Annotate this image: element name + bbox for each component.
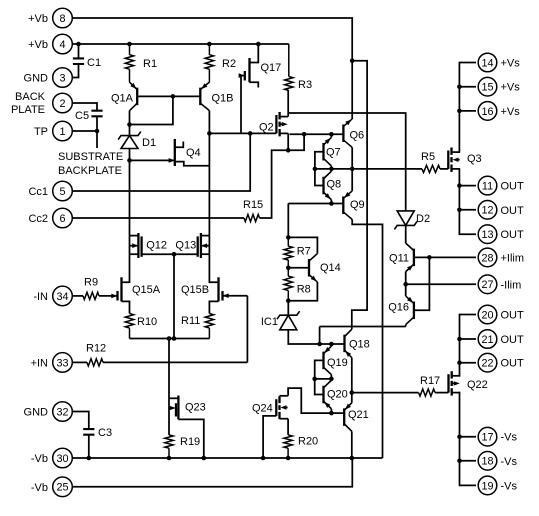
wire Q14 emitter	[288, 282, 317, 301]
node pin22 tap	[457, 360, 462, 365]
pin 17	[478, 427, 497, 446]
wire +Vb8 branch to Q18 column	[352, 61, 367, 330]
transistor Q16	[406, 296, 414, 325]
resistor R11	[205, 314, 213, 339]
wire R17 to Q22 gate	[435, 392, 449, 394]
pin 3	[53, 68, 73, 88]
svg-text:Q12: Q12	[146, 240, 167, 252]
resistor R12	[87, 359, 103, 366]
svg-text:R1: R1	[143, 58, 157, 70]
svg-text:33: 33	[56, 357, 68, 369]
wire pin15 stub	[459, 86, 476, 88]
svg-text:Q9: Q9	[350, 199, 365, 211]
wire Q19Q20 mid rail	[315, 378, 332, 380]
wire Q16 emitter up	[405, 284, 407, 296]
wire Q14 base	[288, 267, 309, 269]
label OUT pin 13	[501, 229, 525, 241]
svg-text:Q16: Q16	[388, 302, 409, 314]
label Q14	[320, 262, 341, 274]
node R8 bottom	[286, 298, 291, 303]
transistor Q21	[344, 403, 352, 432]
label OUT pin 21	[501, 334, 525, 346]
wire Q6 base line	[290, 133, 344, 135]
svg-text:+Vs: +Vs	[501, 82, 521, 94]
wire pin11 stub	[459, 185, 476, 187]
label C5	[75, 110, 89, 122]
svg-text:34: 34	[56, 291, 68, 303]
node tail mid	[172, 336, 177, 341]
node Q1B collector junction	[207, 131, 212, 136]
wire C1 to +Vb rail	[78, 44, 80, 58]
svg-text:-Vs: -Vs	[501, 480, 518, 492]
transistor Q1B	[200, 82, 209, 111]
wire pin18 stub	[460, 460, 477, 462]
node pin15 tap	[457, 84, 462, 89]
node Q19Q20 box mid	[312, 377, 317, 382]
svg-text:R19: R19	[180, 436, 200, 448]
label Q19	[327, 357, 348, 369]
node Q19 emitter tap	[329, 342, 334, 347]
label R11	[181, 315, 200, 327]
svg-text:Q22: Q22	[467, 379, 488, 391]
zener D2	[394, 211, 417, 230]
wire Q23 to R19	[168, 408, 170, 435]
resistor R7	[284, 237, 292, 267]
svg-text:R10: R10	[137, 316, 157, 328]
svg-text:Cc2: Cc2	[28, 213, 48, 225]
wire Q20 emitter rail to Q21 base	[331, 412, 344, 414]
svg-text:R11: R11	[181, 315, 200, 327]
svg-text:22: 22	[481, 358, 493, 370]
svg-text:Q1A: Q1A	[111, 93, 134, 105]
resistor R1	[125, 44, 133, 82]
wire Q23 source	[178, 419, 203, 458]
svg-text:1: 1	[59, 126, 65, 138]
svg-text:14: 14	[481, 57, 493, 69]
wire pin34 to R9	[72, 295, 83, 297]
pin 25	[53, 477, 73, 497]
label Q2	[259, 122, 274, 134]
svg-text:25: 25	[56, 482, 68, 494]
label -Vb pin 30	[31, 453, 48, 465]
pin 11	[478, 176, 497, 195]
node pin12 tap	[457, 208, 462, 213]
wire Q21 collector up	[351, 393, 353, 403]
svg-text:OUT: OUT	[501, 229, 525, 241]
wire Q2 drain to R3	[287, 91, 289, 117]
svg-text:Q17: Q17	[261, 62, 282, 74]
wire Q13 drain lead	[201, 235, 210, 237]
svg-text:28: 28	[481, 252, 493, 264]
svg-text:R2: R2	[222, 58, 236, 70]
svg-text:15: 15	[481, 82, 493, 94]
wire +Vb8 drop to Q6 emitter	[351, 61, 353, 119]
node Q6 base line left	[302, 132, 307, 137]
gate bar Q13	[197, 236, 199, 256]
wire Q7 collector	[330, 166, 332, 169]
svg-text:-Ilim: -Ilim	[501, 279, 522, 291]
svg-text:R15: R15	[243, 199, 263, 211]
wire Q1A collector	[129, 111, 131, 125]
transistor Q15B channel	[217, 277, 219, 301]
wire Q4 source	[175, 162, 210, 166]
node D1 bottom	[127, 158, 132, 163]
svg-text:19: 19	[481, 480, 493, 492]
svg-text:R8: R8	[297, 284, 311, 296]
svg-text:R17: R17	[420, 375, 440, 387]
pin 32	[53, 402, 73, 422]
pin 22	[478, 353, 497, 372]
wire Q20 emitter down	[330, 409, 332, 413]
wire base to collector link	[130, 96, 173, 124]
svg-text:Q23: Q23	[185, 402, 206, 414]
pin 4	[53, 34, 73, 54]
node Q7Q8 box mid	[313, 167, 318, 172]
svg-text:R7: R7	[297, 246, 311, 258]
wire Q3 drain up	[459, 63, 476, 153]
transistor Q13 channel	[200, 233, 202, 258]
pin 12	[478, 201, 497, 220]
label R17	[420, 375, 440, 387]
transistor Q20	[324, 380, 332, 409]
label Q16	[388, 302, 409, 314]
wire Q3 source down	[459, 169, 476, 234]
svg-text:16: 16	[481, 106, 493, 118]
svg-text:Q24: Q24	[252, 403, 273, 415]
label C1	[87, 57, 101, 69]
pin 20	[478, 305, 497, 324]
wire Q7 emitter up	[330, 134, 332, 137]
transistor Q3	[448, 148, 460, 172]
label -Vs pin 19	[501, 480, 518, 492]
label Q13	[175, 240, 196, 252]
pin 27	[478, 275, 497, 294]
wire clamp riser	[319, 327, 321, 345]
node -Ilim junction	[403, 282, 408, 287]
pin 18	[478, 452, 497, 471]
wire D1 bottom	[129, 149, 131, 161]
pin 15	[478, 77, 497, 96]
transistor Q9	[343, 191, 352, 220]
wire Q9 collector down	[352, 219, 382, 458]
transistor Q2	[276, 112, 288, 136]
label +Ilim pin 28	[501, 252, 525, 264]
node Q8 collector tap	[329, 167, 334, 172]
label R3	[298, 79, 312, 91]
wire pin22 stub	[460, 362, 477, 364]
wire Q7Q8 mid rail	[315, 168, 352, 170]
svg-text:Q15A: Q15A	[132, 284, 161, 296]
svg-text:IC1: IC1	[261, 316, 278, 328]
pin 14	[478, 53, 497, 72]
wire Q2 gate line	[209, 132, 276, 134]
wire Q4 drain stub	[175, 142, 184, 148]
svg-text:GND: GND	[24, 407, 49, 419]
wire Q1B collector	[208, 111, 210, 134]
svg-text:4: 4	[59, 39, 65, 51]
node Q20 emitter	[329, 411, 334, 416]
svg-text:18: 18	[481, 456, 493, 468]
wire Cc1	[72, 133, 250, 191]
label Q22	[467, 379, 488, 391]
node R20 bottom	[286, 456, 291, 461]
label Q1A	[111, 93, 134, 105]
node Q1A collector-D1	[127, 122, 132, 127]
wire Q9 emitter up	[351, 169, 353, 191]
transistor Q12 channel	[137, 233, 139, 258]
wire Q4 gate	[130, 158, 175, 163]
pin 33	[53, 353, 73, 373]
svg-text:OUT: OUT	[501, 205, 525, 217]
svg-text:Q18: Q18	[349, 339, 370, 351]
label R8	[297, 284, 311, 296]
svg-text:Q20: Q20	[327, 389, 348, 401]
node +Vb8 branch	[350, 58, 355, 63]
pin 13	[478, 225, 497, 244]
label R19	[180, 436, 200, 448]
label R15	[243, 199, 263, 211]
svg-text:20: 20	[481, 309, 493, 321]
svg-text:OUT: OUT	[501, 181, 525, 193]
pin 1	[53, 121, 73, 141]
wire +IN line	[103, 361, 247, 363]
zener D1	[118, 132, 141, 149]
node Q23 source bottom	[202, 456, 207, 461]
label TP pin 1	[34, 126, 48, 138]
svg-text:27: 27	[481, 279, 493, 291]
node C1 top	[76, 42, 81, 47]
label +Vb pin 8	[28, 13, 48, 25]
label R5	[421, 151, 435, 163]
node Q24 gate bottom	[261, 456, 266, 461]
resistor R2	[205, 44, 213, 82]
label C3	[98, 427, 112, 439]
node R17 left	[350, 390, 355, 395]
label +Vs pin 14	[501, 58, 521, 70]
svg-text:12: 12	[481, 205, 493, 217]
pin 8	[53, 8, 73, 28]
label Q12	[146, 240, 167, 252]
capacitor C5	[91, 111, 102, 117]
svg-text:C5: C5	[75, 110, 89, 122]
pin 2	[53, 93, 73, 113]
wire Q15B gate arrow	[223, 293, 248, 298]
label Q11	[389, 253, 409, 265]
wire Q8 emitter down	[330, 200, 332, 204]
label -Vb pin 25	[31, 482, 48, 494]
svg-text:+Ilim: +Ilim	[501, 252, 525, 264]
pin 28	[478, 248, 497, 267]
transistor Q22	[449, 371, 461, 395]
svg-text:Q6: Q6	[350, 130, 365, 142]
svg-text:5: 5	[59, 186, 65, 198]
label OUT pin 11	[501, 181, 525, 193]
label Q3	[467, 153, 482, 165]
transistor Q4 channel	[174, 139, 176, 166]
svg-text:SUBSTRATE: SUBSTRATE	[58, 151, 123, 163]
wire Q13 gate lead	[174, 253, 198, 255]
node Q1 base mid	[171, 94, 176, 99]
label GND pin 32	[24, 407, 49, 419]
wire IC1 top	[287, 301, 289, 316]
svg-text:TP: TP	[34, 126, 48, 138]
wire Q1A base link	[137, 95, 200, 97]
wire IC1 bottom to bias line	[288, 330, 344, 344]
node R2 top	[207, 42, 212, 47]
gate bar Q12	[140, 236, 142, 256]
label -Vs pin 17	[501, 432, 518, 444]
wire Q24 source to R20	[287, 419, 289, 435]
transistor Q14	[309, 254, 317, 282]
svg-text:R12: R12	[86, 343, 106, 355]
transistor Q7	[324, 137, 332, 166]
wire Q23 gate arrow	[169, 406, 176, 411]
wire pin33 to R12	[72, 361, 87, 363]
svg-text:+Vs: +Vs	[501, 58, 521, 70]
wire pin21 stub	[460, 338, 477, 340]
wire Q2src riser	[288, 134, 304, 150]
wire Q22 source down	[460, 393, 477, 486]
wire Q12 source lead	[130, 253, 139, 255]
wire Q19 emitter up	[330, 344, 332, 346]
svg-text:21: 21	[481, 334, 493, 346]
transistor Q15A channel	[120, 277, 122, 301]
wire pin32 to C3	[72, 412, 89, 430]
wire Q7Q8 box	[315, 152, 324, 186]
svg-text:C3: C3	[98, 427, 112, 439]
wire Q8 collector up	[330, 169, 332, 171]
svg-text:R9: R9	[84, 277, 98, 289]
svg-text:-Vs: -Vs	[501, 432, 518, 444]
node pin16 tap	[457, 109, 462, 114]
wire Q12 gate arrow	[130, 243, 139, 248]
resistor R8	[284, 268, 292, 301]
wire Q11 base to pin28	[414, 256, 476, 258]
svg-text:+IN: +IN	[31, 357, 48, 369]
label GND pin 3	[24, 73, 49, 85]
wire Q19Q20 box	[315, 360, 324, 394]
svg-text:30: 30	[56, 453, 68, 465]
wire Q17 gate drop	[240, 76, 242, 134]
label Q24	[252, 403, 273, 415]
resistor R15	[244, 214, 260, 221]
svg-text:BACKPLATE: BACKPLATE	[58, 165, 122, 177]
wire substrate stub	[96, 131, 98, 148]
wire Q23 drain	[169, 397, 178, 399]
wire D1 top	[129, 125, 131, 136]
wire Q13 gate arrow	[201, 243, 210, 248]
svg-text:3: 3	[59, 72, 65, 84]
svg-text:Q15B: Q15B	[181, 284, 209, 296]
transistor Q8	[324, 171, 332, 200]
node Q2 source	[286, 148, 291, 153]
svg-text:BACK: BACK	[15, 91, 46, 103]
svg-text:Q11: Q11	[389, 253, 409, 265]
label Q7	[326, 147, 341, 159]
resistor R20	[284, 435, 292, 458]
svg-text:R20: R20	[298, 436, 318, 448]
wire +Vb pin4 rail	[72, 43, 289, 45]
wire Q18 emitter	[351, 358, 353, 393]
wire C3 down	[88, 435, 90, 458]
node R5 left	[350, 167, 355, 172]
wire -Vb pin25 rail	[72, 458, 352, 487]
svg-text:Q13: Q13	[175, 240, 196, 252]
label -IN pin 34	[33, 291, 48, 303]
node R1 top	[127, 42, 132, 47]
transistor Q17 channel	[248, 58, 250, 82]
wire gate rail to tail	[173, 254, 175, 338]
resistor R9	[83, 292, 99, 299]
label R20	[298, 436, 318, 448]
node Q8 emitter to Q9 base	[329, 201, 334, 206]
wire Q16 collector down	[405, 325, 407, 327]
resistor R5	[422, 165, 440, 172]
node TP-C5 junction	[95, 129, 100, 134]
wire pin28 to Q16 base	[414, 257, 430, 310]
node pin18 tap	[457, 459, 462, 464]
label R7	[297, 246, 311, 258]
label Cc2 pin 6	[28, 213, 48, 225]
svg-text:17: 17	[481, 432, 493, 444]
wire Q12 gate lead	[142, 253, 174, 255]
wire -Vb pin30 rail	[72, 457, 383, 459]
label Q15B	[181, 284, 209, 296]
wire -IN gate lead	[99, 294, 118, 299]
label Q23	[185, 402, 206, 414]
label Q20	[327, 389, 348, 401]
label Q4	[186, 147, 201, 159]
node R7R8 mid	[286, 266, 291, 271]
svg-text:Q3: Q3	[467, 153, 482, 165]
label OUT pin 20	[501, 310, 525, 322]
wire R17 line	[352, 392, 419, 394]
pin 21	[478, 330, 497, 349]
wire Q19 collector	[330, 375, 332, 379]
wire Q24 gate	[263, 416, 276, 458]
pin 30	[53, 448, 73, 468]
label D2	[416, 213, 430, 225]
transistor Q1A	[130, 82, 138, 111]
pin 34	[53, 286, 73, 306]
gate bar Q15B	[221, 291, 223, 301]
label IC1	[261, 316, 278, 328]
node pin17 tap	[457, 434, 462, 439]
wire Q12 drain lead	[130, 235, 139, 237]
svg-text:D2: D2	[416, 213, 430, 225]
pin 6	[53, 208, 73, 228]
svg-text:R5: R5	[421, 151, 435, 163]
svg-text:Q21: Q21	[348, 409, 369, 421]
capacitor C1	[73, 58, 84, 64]
label OUT pin 22	[501, 358, 525, 370]
wire Q17 drain	[250, 44, 259, 63]
node pin28 branch	[427, 255, 432, 260]
transistor Q18	[345, 329, 352, 358]
label BACK PLATE pin 2	[11, 91, 46, 116]
svg-text:PLATE: PLATE	[11, 104, 45, 116]
wire Q13 source lead	[201, 253, 210, 255]
svg-text:6: 6	[59, 213, 65, 225]
label Q17	[261, 62, 282, 74]
wire Cc2 to R15	[72, 217, 244, 219]
node Q7 emitter tap	[329, 132, 334, 137]
wire Q9 base line	[288, 203, 343, 205]
node Q19Q20 col mid	[329, 377, 334, 382]
label Q8	[327, 179, 342, 191]
svg-text:+Vb: +Vb	[28, 13, 48, 25]
wire Q15B source	[209, 301, 218, 313]
